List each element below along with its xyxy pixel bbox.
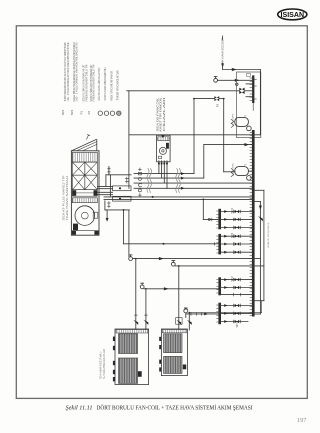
pump P-K2 [235, 167, 249, 176]
riser x203.8 [203, 145, 205, 179]
right downleg x260.4 top [259, 70, 261, 135]
riser to P2 line [193, 99, 195, 174]
valve P2 (bowtie) [214, 96, 219, 101]
svg-text:SP1: SP1 [235, 322, 239, 328]
damper X row2 [72, 175, 84, 190]
wire y98.6 [194, 98, 214, 100]
svg-text:197: 197 [297, 417, 306, 424]
FCU stubs [158, 161, 160, 174]
flow arrow [235, 79, 240, 82]
branch flow arrows [224, 210, 227, 213]
mains y196.9 / y199.4 [104, 196, 252, 198]
filter band [72, 152, 97, 162]
exhaust arrowhead [221, 64, 224, 68]
wire y209.9 [105, 209, 129, 211]
legend block [62, 42, 120, 101]
AHU coil hookup cluster [98, 186, 113, 194]
label YT [247, 73, 251, 76]
small circle on line [236, 83, 238, 85]
line trim marks [208, 218, 216, 245]
drain stub with arrow [106, 210, 108, 218]
svg-text:P1: P1 [79, 111, 83, 115]
svg-text:P-K2 POMPA: P-K2 POMPA [232, 163, 235, 176]
svg-text:ISISAN: ISISAN [281, 10, 305, 19]
valve trim column x139.9 [138, 168, 141, 197]
pump P-K1 [235, 117, 249, 126]
legend symbol circles [98, 111, 121, 115]
zone1 left edge [128, 91, 130, 189]
svg-text:P2: P2 [216, 103, 220, 107]
svg-text:ATIK HAVA EGZOST: ATIK HAVA EGZOST [221, 38, 225, 66]
wire y80.3 [218, 79, 253, 81]
boiler risers [178, 266, 180, 330]
damper X row1 [72, 162, 84, 175]
sub-collector SP1 [218, 303, 221, 325]
boiler unit [161, 329, 187, 376]
collector bar K2 (top) [252, 75, 254, 103]
safety valve + SP1 feed line [186, 313, 219, 315]
sub-collector SP4 [218, 209, 221, 230]
svg-text:SICAK SU GİDİŞ DÖNÜŞ: SICAK SU GİDİŞ DÖNÜŞ [267, 222, 270, 248]
wire y144.6 [204, 144, 252, 146]
boiler return loop [189, 312, 261, 314]
sub-collector SP2 [218, 277, 221, 295]
valve V-top (bowtie) [239, 88, 244, 94]
page frame [16, 26, 307, 399]
main header bar [252, 130, 255, 317]
AHU base nubs [72, 231, 76, 235]
wire y243.8 long [124, 243, 219, 245]
collector stubs [246, 83, 252, 85]
riser x123.5 [123, 210, 125, 244]
svg-text:TAZE HAVA SANTRALİ: TAZE HAVA SANTRALİ [66, 175, 69, 221]
exhaust stack label line [222, 36, 224, 40]
coil band [72, 190, 97, 197]
FCU1 unit [157, 135, 171, 162]
zone1 top line y90.8 [127, 90, 240, 92]
flow arrow [232, 68, 237, 71]
chiller risers [135, 259, 137, 330]
svg-text:P-K1 POMPA: P-K1 POMPA [232, 113, 235, 126]
air vent AV4 + line y288.8 [140, 285, 144, 289]
zone2 left edge [128, 210, 130, 256]
wire y134.8 main [129, 134, 261, 136]
svg-text:SU SOĞUTMA GRUPLARI: SU SOĞUTMA GRUPLARI [103, 349, 106, 379]
FCU branch lines [134, 173, 194, 175]
right return risers [254, 189, 264, 191]
svg-text:P2: P2 [87, 111, 91, 115]
AHU roof [72, 140, 97, 151]
svg-text:SP3: SP3 [61, 109, 65, 115]
air vent AV2 + chilled line y258.6 [129, 257, 133, 261]
svg-text:DÖRT BORULU FAN-COIL + TAZE HA: DÖRT BORULU FAN-COIL + TAZE HAVA SİSTEMİ… [97, 405, 253, 412]
fan section [75, 206, 95, 226]
svg-text:Şekil 11.11: Şekil 11.11 [66, 405, 93, 412]
boiler valves [176, 320, 181, 325]
ISISAN logo [278, 9, 307, 20]
riser R2 [223, 99, 225, 172]
pump assembly enclosure (top right) [236, 72, 260, 138]
squiggle S1 [147, 169, 152, 193]
wire top supply y69.5 [223, 69, 261, 71]
wire y219.4 + riser x203.3 [202, 199, 204, 219]
valve flanges [233, 210, 240, 323]
svg-text:SEA HAVA SOĞUTMALI: SEA HAVA SOĞUTMALI [100, 351, 103, 379]
chiller unit [115, 329, 149, 385]
sub-collector SP3 [218, 234, 221, 255]
air vent AV3 + hot line y265.9 [171, 262, 175, 266]
chiller valves [133, 320, 138, 325]
hatch band [72, 198, 97, 203]
squiggle S2 [176, 169, 181, 193]
junction dots [123, 98, 254, 314]
AHU casing [71, 151, 99, 235]
svg-text:SP4: SP4 [70, 109, 74, 115]
air vent AV1 [214, 78, 218, 82]
